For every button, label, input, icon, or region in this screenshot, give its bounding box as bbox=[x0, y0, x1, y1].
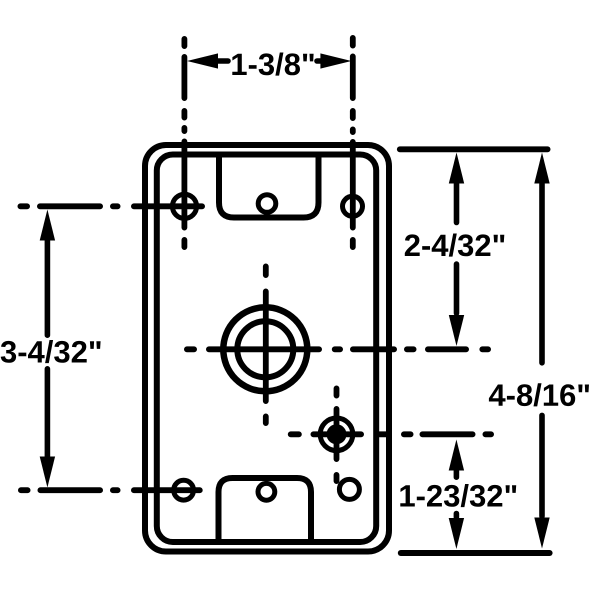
center knockout inner circle bbox=[237, 321, 293, 377]
dim 1-3/8 shaft left bbox=[216, 58, 228, 64]
top tab bbox=[219, 155, 319, 218]
centerline vertical x353 bbox=[350, 38, 356, 247]
dim 1-3/8 arrow right bbox=[320, 53, 351, 68]
centerline horizontal y349 center bbox=[187, 346, 488, 352]
pilot knockout ring bbox=[320, 418, 353, 451]
top tab hole bbox=[258, 195, 276, 213]
centerline horizontal y490 left bbox=[21, 487, 200, 493]
centerline vertical x266 bbox=[263, 266, 269, 423]
dim 4-8/16 shafts bbox=[539, 184, 545, 516]
centerline horizontal y434 pilot bbox=[291, 431, 491, 437]
outer box outline bbox=[145, 145, 389, 552]
dim 2-4/32 shafts bbox=[454, 184, 460, 313]
dim 1-23/32 shafts bbox=[454, 471, 460, 517]
dim 1-3/8 arrow left bbox=[187, 53, 218, 68]
bottom-left screw hole bbox=[174, 480, 194, 500]
bottom tab bbox=[219, 478, 312, 541]
dim 1-23/32 arrow up bbox=[449, 440, 464, 471]
dim 1-3/8 shaft right bbox=[317, 58, 323, 64]
label 3-4/32 bbox=[1, 340, 101, 363]
centerline vertical x184 bbox=[181, 39, 187, 247]
pilot knockout center dot bbox=[327, 424, 347, 444]
bottom tab hole bbox=[258, 483, 275, 500]
centerline horizontal y206 left bbox=[20, 203, 202, 209]
dim 2-4/32 arrow up bbox=[449, 153, 464, 184]
dim 3-4/32 shafts bbox=[45, 241, 51, 457]
inner box outline bbox=[157, 155, 376, 543]
centerline vertical x336 pilot bbox=[334, 388, 340, 481]
label 1-23/32 bbox=[400, 484, 516, 507]
dim 1-23/32 arrow down bbox=[449, 518, 464, 549]
dim 2-4/32 arrow down bbox=[449, 315, 464, 346]
dim 3-4/32 arrow up bbox=[40, 210, 55, 241]
dim 3-4/32 arrow down bbox=[40, 457, 55, 488]
label 1-3/8 bbox=[232, 53, 313, 76]
label 4-8/16 bbox=[489, 383, 589, 406]
top-right screw hole bbox=[343, 196, 363, 216]
center knockout outer circle bbox=[223, 307, 307, 391]
extension line top right bbox=[400, 146, 548, 152]
bottom-right keyhole bbox=[339, 479, 359, 499]
label 2-4/32 bbox=[405, 234, 505, 257]
dim 4-8/16 arrow up bbox=[534, 153, 549, 184]
top-left screw hole bbox=[172, 194, 196, 218]
dim 4-8/16 arrow down bbox=[534, 518, 549, 549]
extension line bottom right bbox=[401, 550, 550, 556]
